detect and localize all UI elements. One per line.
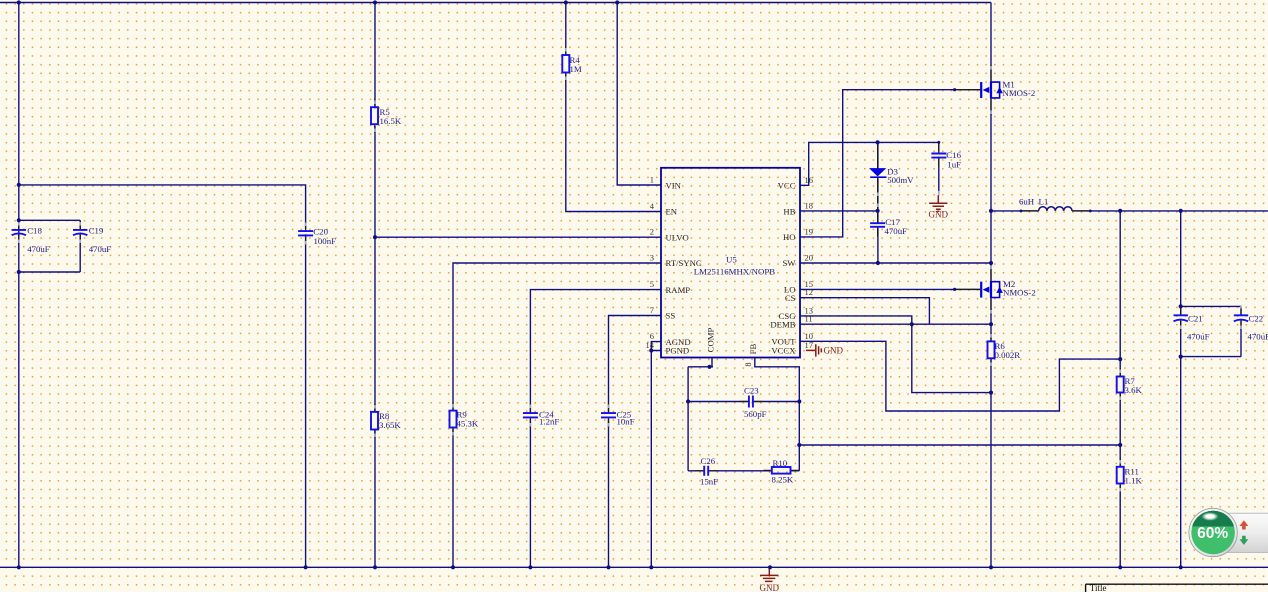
resistor R7 <box>1117 377 1124 393</box>
svg-text:RAMP: RAMP <box>666 285 691 295</box>
svg-text:C19: C19 <box>89 226 104 236</box>
wire RT/SYNC to R9 <box>453 263 661 411</box>
wire D3/C17 column <box>877 142 879 263</box>
svg-text:DEMB: DEMB <box>770 319 795 329</box>
svg-text:Title: Title <box>1090 583 1107 592</box>
svg-text:0.002R: 0.002R <box>995 350 1021 360</box>
capacitor C23 <box>749 396 753 408</box>
svg-text:1.2nF: 1.2nF <box>539 416 559 426</box>
resistor R8 <box>371 412 378 430</box>
wire output column R7/R11 <box>1119 211 1121 567</box>
svg-text:8.25K: 8.25K <box>772 474 794 484</box>
svg-text:10nF: 10nF <box>617 416 635 426</box>
wire AGND/PGND to bus <box>651 342 661 568</box>
wire top VIN bus <box>0 2 991 4</box>
svg-text:FB: FB <box>748 343 758 354</box>
zoom badge down arrow <box>1240 536 1249 545</box>
svg-text:VCCX: VCCX <box>771 346 796 356</box>
svg-text:1uF: 1uF <box>947 159 961 169</box>
wire VIN left segment to C20 <box>19 185 306 229</box>
svg-text:C22: C22 <box>1249 313 1264 323</box>
wire C21/C22 rails <box>1181 306 1241 356</box>
capacitor C22 <box>1234 315 1248 321</box>
svg-text:GND: GND <box>824 345 844 355</box>
wire SS to C25 <box>609 316 662 414</box>
svg-text:15nF: 15nF <box>700 476 718 486</box>
svg-text:19: 19 <box>805 226 814 236</box>
svg-text:12: 12 <box>805 287 814 297</box>
capacitor C16 <box>931 154 946 158</box>
wire RAMP to C24 <box>530 290 661 413</box>
wire kelvin sense to R6 bottom <box>912 324 991 392</box>
svg-text:GND: GND <box>760 583 780 592</box>
capacitor C26 <box>704 466 708 476</box>
capacitor C17 <box>870 223 885 227</box>
inductor L1 <box>1039 207 1072 211</box>
capacitor C20 <box>298 231 313 235</box>
svg-text:470uF: 470uF <box>89 244 112 254</box>
capacitor C19 <box>73 230 87 235</box>
svg-text:1M: 1M <box>570 64 582 74</box>
svg-text:470uF: 470uF <box>885 226 908 236</box>
svg-text:8: 8 <box>743 362 753 366</box>
svg-text:470uF: 470uF <box>27 244 50 254</box>
zoom badge sphere <box>1189 508 1238 556</box>
svg-text:18: 18 <box>805 201 814 211</box>
svg-text:CS: CS <box>785 293 796 303</box>
svg-text:1.1K: 1.1K <box>1125 475 1143 485</box>
svg-text:LM25116MHX/NOPB: LM25116MHX/NOPB <box>694 266 775 276</box>
capacitor C18 <box>12 230 26 235</box>
svg-text:COMP: COMP <box>706 328 716 353</box>
component pin leads (black) <box>19 47 1241 493</box>
wire C16 stems <box>938 142 940 194</box>
resistor R5 <box>371 107 378 124</box>
svg-text:RT/SYNC: RT/SYNC <box>666 258 702 268</box>
svg-text:3: 3 <box>650 253 654 263</box>
svg-text:3.6K: 3.6K <box>1125 385 1143 395</box>
transistor M2 NMOS-2 <box>981 281 1003 298</box>
wire VIN drop to pin 1 <box>617 3 661 186</box>
op-amp U5 LM25116 IC body <box>661 168 800 358</box>
svg-text:EN: EN <box>666 207 678 217</box>
wire CSG line <box>800 316 912 324</box>
svg-text:45.3K: 45.3K <box>457 418 479 428</box>
zoom badge up arrow <box>1240 520 1249 529</box>
svg-text:2: 2 <box>650 227 654 237</box>
svg-text:R10: R10 <box>773 458 788 468</box>
svg-text:C21: C21 <box>1188 313 1203 323</box>
svg-text:100nF: 100nF <box>314 236 337 246</box>
transistor M1 NMOS-2 <box>981 81 1003 98</box>
resistor R9 <box>450 411 457 428</box>
ground GND at bottom bus <box>760 568 778 582</box>
svg-text:500mV: 500mV <box>887 175 914 185</box>
svg-text:470uF: 470uF <box>1187 331 1210 341</box>
wire R4 column and EN <box>566 3 661 212</box>
capacitor C21 <box>1174 315 1188 321</box>
svg-text:60%: 60% <box>1197 525 1228 542</box>
wire C25 bottom to bus <box>608 419 610 567</box>
svg-text:1: 1 <box>650 175 654 185</box>
svg-text:20: 20 <box>805 253 814 263</box>
svg-text:16.5K: 16.5K <box>380 116 402 126</box>
wire C21 column <box>1180 211 1182 567</box>
wire ULVO to R5/R8 node <box>375 236 661 238</box>
svg-text:L1: L1 <box>1039 196 1049 206</box>
svg-text:SS: SS <box>666 311 676 321</box>
svg-text:560pF: 560pF <box>744 409 767 419</box>
resistor R4 <box>562 55 569 73</box>
wire FB to divider <box>799 444 1120 446</box>
wire C23 row <box>688 401 799 403</box>
svg-text:470uF: 470uF <box>1248 331 1268 341</box>
title block top line <box>1086 584 1268 592</box>
svg-text:U5: U5 <box>726 254 737 264</box>
resistor R6 <box>988 341 995 358</box>
svg-text:C23: C23 <box>744 385 759 395</box>
svg-text:C26: C26 <box>701 456 716 466</box>
wire HB line <box>800 210 878 212</box>
svg-text:HB: HB <box>783 206 795 216</box>
svg-text:NMOS-2: NMOS-2 <box>1003 287 1036 297</box>
wire R9 bottom to bus <box>452 428 454 568</box>
wire COMP stub and comp network left <box>688 358 713 471</box>
wire left input column <box>18 3 20 568</box>
wire LO to M2 gate <box>800 288 980 290</box>
wire C18/C19 top rail <box>19 219 80 221</box>
diode D3 <box>869 168 887 178</box>
svg-text:VIN: VIN <box>666 181 682 191</box>
capacitor C24 <box>523 413 538 417</box>
pin hotspot markers (light blue) <box>19 48 1241 492</box>
svg-text:C18: C18 <box>27 226 42 236</box>
svg-text:3.65K: 3.65K <box>379 420 401 430</box>
wire FB stub and comp network right <box>755 358 800 471</box>
wire C24 bottom to bus <box>529 419 531 567</box>
wire HO to M1 gate <box>800 90 980 237</box>
wire C20 bottom to GND bus <box>305 234 307 567</box>
svg-text:11: 11 <box>805 314 813 324</box>
svg-text:HO: HO <box>783 232 796 242</box>
wire MOSFET column <box>990 3 992 568</box>
wire C18/C19 bottom rail <box>19 271 80 273</box>
svg-text:14: 14 <box>646 340 655 350</box>
svg-text:7: 7 <box>650 305 654 315</box>
zoom badge bar <box>1204 513 1268 552</box>
wire SW pin line <box>800 262 991 264</box>
resistor R10 <box>772 467 791 474</box>
svg-text:17: 17 <box>805 340 814 350</box>
wire bottom GND bus <box>0 566 1268 568</box>
wire R5/R8 column <box>374 3 376 568</box>
capacitor C25 <box>601 413 616 417</box>
svg-text:16: 16 <box>805 175 814 185</box>
ground GND at VCCX pin 17 <box>806 344 821 356</box>
wire SW node to L1 and output <box>991 210 1268 212</box>
resistor R11 <box>1117 467 1124 484</box>
wire C19 stems <box>79 220 81 272</box>
wire CS line <box>800 298 929 325</box>
wire VOUT routing <box>800 341 1120 411</box>
svg-text:GND: GND <box>929 210 949 220</box>
svg-text:VCC: VCC <box>778 181 796 191</box>
svg-text:5: 5 <box>650 279 654 289</box>
wire DEMB line <box>800 323 991 325</box>
svg-text:SW: SW <box>782 258 796 268</box>
wire C26/R10 row <box>688 470 799 472</box>
wire VCC to C16/D3 <box>800 142 939 185</box>
svg-text:PGND: PGND <box>666 346 690 356</box>
svg-text:ULVO: ULVO <box>666 232 689 242</box>
svg-text:6uH: 6uH <box>1019 196 1035 206</box>
ground GND under C16 <box>929 195 947 211</box>
svg-text:NMOS-2: NMOS-2 <box>1003 88 1036 98</box>
